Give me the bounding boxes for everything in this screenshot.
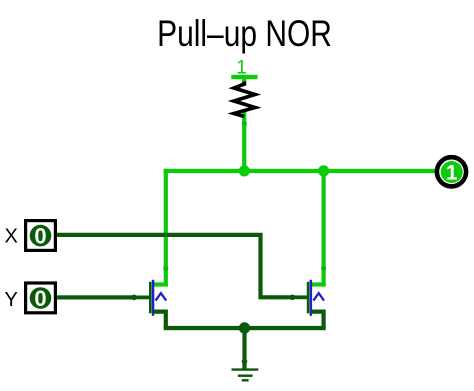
node ground port xyxy=(242,359,248,365)
junction at right drop/rail xyxy=(318,165,329,176)
svg-text:Pull–up NOR: Pull–up NOR xyxy=(157,14,332,55)
wire resistor bottom to rail xyxy=(242,111,246,172)
junction at resistor/rail xyxy=(239,165,250,176)
transistor M1 gate plate xyxy=(149,282,152,314)
input pin X value circle xyxy=(30,225,52,247)
transistor M2 gate plate xyxy=(307,282,310,314)
wire output rail (value 1) xyxy=(164,169,440,173)
wire ground rail xyxy=(164,326,326,330)
input pin Y value circle xyxy=(30,287,52,309)
input pin Y box xyxy=(26,283,56,313)
ground symbol xyxy=(232,370,259,381)
junction at ground rail center xyxy=(239,322,250,333)
wire input X (value 0) xyxy=(56,235,292,297)
wire M2 source stub xyxy=(311,312,324,328)
resistor R (pull-up) xyxy=(234,82,255,117)
transistor M1 N-type caret xyxy=(156,293,167,301)
svg-text:X: X xyxy=(5,226,18,248)
wire ground stub xyxy=(242,328,246,369)
node M1 gate port xyxy=(131,295,137,301)
node M2 gate port xyxy=(290,295,296,301)
input pin X box xyxy=(26,221,56,251)
wire power to resistor top xyxy=(242,77,246,86)
transistor M1 gate lead xyxy=(134,296,150,300)
wire M1 drain stub xyxy=(153,282,168,286)
node M2 drain port xyxy=(321,266,326,271)
node resistor bottom port xyxy=(242,121,247,126)
svg-text:Y: Y xyxy=(5,289,18,311)
wire right drop to M2 drain xyxy=(322,169,326,287)
transistor M2 channel plate xyxy=(310,280,313,316)
svg-text:0: 0 xyxy=(34,286,46,311)
wire M1 source stub xyxy=(153,312,166,328)
transistor M2 N-type caret xyxy=(313,293,324,301)
transistor M2 gate lead xyxy=(293,295,309,299)
output pin value circle xyxy=(441,161,463,183)
title "Pull-up NOR" xyxy=(157,14,332,55)
svg-text:1: 1 xyxy=(446,162,458,185)
output pin white backing xyxy=(439,159,464,184)
output pin black ring xyxy=(437,157,466,186)
transistor M1 channel plate xyxy=(152,280,155,316)
power supply V+ bar xyxy=(231,75,257,79)
wire input Y (value 0) xyxy=(56,295,134,299)
node M1 drain port xyxy=(163,266,168,271)
wire left drop to M1 drain xyxy=(164,169,168,287)
wire M2 drain stub xyxy=(311,282,326,286)
svg-text:0: 0 xyxy=(34,223,46,248)
